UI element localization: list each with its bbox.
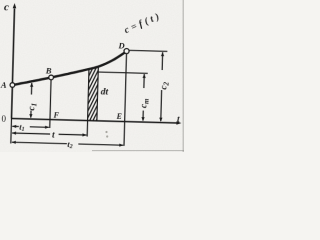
ordinate line from D down to E and below axis	[124, 54, 126, 146]
faint page-crop line at bottom right	[92, 150, 184, 152]
dimension cm (vertical double arrow at x=143)	[141, 74, 145, 122]
hatched strip of width dt under curve	[84, 42, 99, 240]
extension line below origin	[10, 119, 13, 144]
svg-text:B: B	[45, 65, 52, 75]
dimension c1 (vertical double arrow at x=31)	[29, 82, 33, 118]
dimension c2 (vertical double arrow at x=161)	[159, 52, 164, 122]
extension line below strip left edge	[86, 121, 88, 137]
svg-text:E: E	[115, 112, 122, 121]
svg-text:0: 0	[1, 114, 6, 124]
dimension t (horizontal double arrow)	[12, 131, 87, 136]
dimension t1 (horizontal double arrow)	[12, 125, 49, 129]
horizontal line at D level (top of c2 dimension)	[129, 50, 168, 51]
t axis (horizontal) with arrowhead	[11, 117, 181, 125]
c axis (vertical) with arrowhead	[10, 3, 17, 119]
svg-text:D: D	[117, 40, 124, 50]
dimension t2 (horizontal double arrow)	[12, 141, 124, 147]
svg-text:c: c	[4, 1, 9, 13]
point B (open circle on curve)	[49, 75, 54, 80]
curve c=f(t)	[12, 48, 126, 88]
faint scan specks below strip	[105, 131, 107, 133]
svg-text:dt: dt	[101, 87, 109, 97]
svg-text:A: A	[0, 80, 7, 90]
point D (open circle at curve end)	[124, 49, 129, 54]
horizontal line at mean level (top of cm dimension)	[98, 72, 148, 73]
faint page-crop border at right edge	[182, 0, 184, 152]
svg-text:F: F	[52, 111, 59, 120]
point A (open circle on c axis)	[10, 83, 15, 88]
ordinate line from B down to F and below axis	[50, 80, 51, 128]
